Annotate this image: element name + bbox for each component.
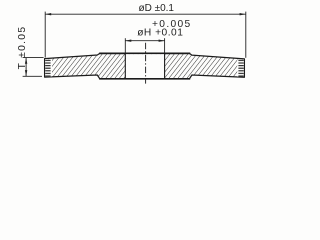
svg-text:T ±0.05: T ±0.05	[17, 26, 28, 70]
svg-text:øH +0.01: øH +0.01	[137, 28, 183, 39]
svg-text:øD ±0.1: øD ±0.1	[139, 3, 175, 14]
